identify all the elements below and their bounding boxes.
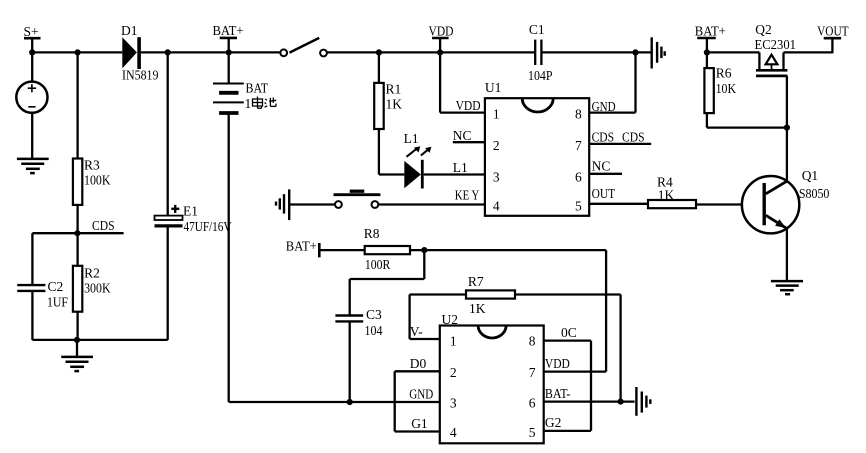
wire R7 right to BAT- net [515, 295, 621, 402]
svg-text:3: 3 [493, 170, 500, 185]
ground (right of C1) [652, 37, 665, 68]
wire Q1 emitter down [786, 229, 788, 281]
svg-text:Q1: Q1 [802, 168, 819, 183]
svg-text:1: 1 [450, 334, 457, 349]
power source [16, 52, 47, 158]
svg-text:GND: GND [409, 387, 433, 402]
wire BAT+ to R8 [319, 249, 364, 251]
svg-text:7: 7 [529, 365, 536, 380]
svg-text:BAT+: BAT+ [286, 239, 317, 254]
svg-text:7: 7 [575, 138, 582, 153]
junction E1 branch [165, 49, 171, 55]
svg-text:R2: R2 [84, 266, 100, 281]
svg-text:VDD: VDD [456, 98, 481, 113]
svg-text:8: 8 [575, 107, 582, 122]
battery BAT 1 [213, 52, 269, 113]
wire R7 left to U2 pin1 [410, 295, 466, 340]
junction CDS node [74, 230, 80, 236]
U1 pin2 label NC with stub [453, 128, 485, 143]
resistor R2 [73, 266, 111, 312]
wire R3 to CDS node [76, 205, 78, 233]
svg-text:1K: 1K [386, 97, 403, 112]
LED L1 [404, 131, 432, 189]
ground (below R2) [61, 340, 93, 371]
wire U2 pin8 to pin5 loop [544, 341, 591, 431]
svg-text:R6: R6 [716, 66, 732, 81]
svg-text:2: 2 [493, 138, 500, 153]
svg-text:4: 4 [493, 198, 500, 213]
svg-text:2: 2 [450, 365, 457, 380]
wire battery to bottom rail [228, 113, 230, 402]
resistor R8 [364, 226, 410, 272]
svg-text:R8: R8 [364, 226, 380, 241]
svg-text:VDD: VDD [545, 356, 570, 371]
svg-text:0C: 0C [561, 325, 577, 340]
node BAT+ terminal (top) [213, 23, 244, 52]
wire R2 to bottom node [76, 312, 78, 340]
svg-text:300K: 300K [84, 281, 111, 296]
U1 pin6 label NC with stub [589, 158, 622, 173]
svg-text:100R: 100R [365, 257, 391, 272]
wire BAT+ to Q2 source [707, 51, 760, 53]
junction battery branch [226, 49, 232, 55]
svg-text:10K: 10K [716, 81, 737, 96]
svg-text:VOUT: VOUT [817, 23, 849, 38]
op-amp U1 box [485, 80, 589, 216]
node BAT+ terminal (bottom) [286, 239, 320, 258]
wire R8 node down to U2 pin7 [544, 250, 606, 372]
svg-text:D0: D0 [410, 356, 427, 371]
svg-text:5: 5 [575, 198, 582, 213]
capacitor E1 [155, 204, 232, 235]
resistor R4 [648, 174, 696, 208]
transistor Q1 [742, 168, 830, 233]
node BAT+ terminal (right) [695, 24, 726, 53]
junction R1 branch [376, 49, 382, 55]
svg-text:BAT+: BAT+ [213, 23, 244, 38]
svg-text:IN5819: IN5819 [122, 68, 159, 83]
ground (right of U2 pin6) [636, 387, 650, 416]
wire R6 to gate line [707, 113, 787, 128]
node CDS [32, 218, 123, 233]
wire U2 pin6 to ground [544, 400, 635, 402]
ground (below source) [17, 159, 49, 173]
wire CDS node to R2 [76, 233, 78, 266]
svg-text:C3: C3 [366, 307, 382, 322]
svg-text:VDD: VDD [429, 24, 454, 39]
junction BAT+ right [704, 49, 710, 55]
wire R8 to corner right [410, 249, 606, 251]
svg-text:5: 5 [529, 425, 536, 440]
svg-text:KE Y: KE Y [455, 188, 480, 203]
svg-text:1: 1 [493, 107, 500, 122]
wire C3 to bottom rail [349, 321, 351, 402]
wire VDD down to U1 pin1 [440, 52, 485, 112]
svg-text:L1: L1 [404, 131, 419, 146]
junction R3 branch on top rail [75, 49, 81, 55]
ground (left of push button) [276, 189, 289, 220]
svg-text:47UF/16V: 47UF/16V [184, 219, 232, 234]
junction VDD on top rail [437, 49, 443, 55]
svg-text:S8050: S8050 [799, 186, 830, 201]
wire C2 to bottom node [31, 291, 33, 340]
svg-text:BAT: BAT [246, 81, 269, 96]
svg-text:1UF: 1UF [47, 295, 68, 310]
value label 1电池 [245, 96, 277, 111]
svg-text:GND: GND [592, 99, 616, 114]
junction at S+ on top rail [29, 49, 35, 55]
U1 pin7 label CDS with stub [589, 129, 651, 144]
svg-text:CDS: CDS [592, 129, 615, 144]
junction bottom node [74, 337, 80, 343]
wire bottom node rail [32, 339, 167, 341]
svg-text:NC: NC [453, 128, 472, 143]
svg-text:6: 6 [575, 170, 582, 185]
svg-text:G1: G1 [411, 416, 428, 431]
svg-text:S+: S+ [24, 24, 39, 39]
svg-text:R3: R3 [84, 158, 100, 173]
wire top rail switch to C1 [327, 51, 535, 53]
svg-text:V-: V- [410, 324, 424, 339]
svg-text:6: 6 [529, 396, 536, 411]
svg-text:U1: U1 [485, 80, 502, 95]
junction GND branch [632, 49, 638, 55]
wire top rail D1 to switch [141, 51, 281, 53]
svg-text:1K: 1K [469, 301, 486, 316]
push button KEY [334, 191, 381, 208]
wire R3 branch down [76, 52, 78, 158]
svg-text:104: 104 [365, 323, 383, 338]
svg-text:4: 4 [450, 425, 457, 440]
wire D0/G1 loop [395, 371, 440, 431]
svg-text:BAT-: BAT- [545, 386, 571, 401]
resistor R7 [466, 274, 515, 316]
svg-text:Q2: Q2 [755, 22, 772, 37]
svg-text:8: 8 [529, 334, 536, 349]
resistor R1 [374, 82, 402, 130]
wire Q2 drain to VOUT [784, 51, 834, 53]
svg-text:D1: D1 [121, 23, 138, 38]
resistor R3 [73, 158, 111, 205]
wire top rail S+ to D1 [32, 51, 122, 53]
capacitor C2 [17, 279, 68, 310]
svg-text:R7: R7 [468, 274, 484, 289]
node VDD terminal [429, 24, 454, 53]
svg-text:EC2301: EC2301 [755, 37, 797, 52]
svg-text:G2: G2 [545, 415, 562, 430]
wire E1 to bottom node rail [167, 228, 169, 340]
junction R8 output node [421, 247, 427, 253]
svg-text:CDS: CDS [622, 129, 645, 144]
wire Q1 collector up to Q2 gate [786, 76, 788, 181]
capacitor C1 [528, 22, 553, 83]
svg-text:104P: 104P [528, 68, 553, 83]
op-amp U2 box [440, 312, 544, 443]
capacitor C3 [335, 307, 382, 338]
wire top rail C1 to ground [541, 51, 651, 53]
wire C3 branch [350, 250, 425, 315]
svg-text:C1: C1 [529, 22, 545, 37]
svg-text:U2: U2 [442, 312, 459, 327]
junction C3 bottom [347, 399, 353, 405]
wire C2 branch down [31, 233, 33, 285]
diode D1 [121, 23, 159, 83]
node S+ terminal [24, 24, 41, 52]
wire LED to U1 pin3 [424, 173, 485, 175]
wire ground to push button [289, 203, 335, 205]
ground (below Q1) [771, 281, 803, 294]
svg-text:E1: E1 [183, 204, 198, 219]
wire E1 branch down [167, 52, 169, 215]
svg-text:3: 3 [450, 396, 457, 411]
wire R1 branch down [378, 52, 380, 83]
junction R6 to gate line [784, 125, 790, 131]
svg-text:L1: L1 [453, 160, 468, 175]
svg-text:100K: 100K [84, 173, 111, 188]
svg-text:OUT: OUT [592, 186, 616, 201]
svg-text:CDS: CDS [92, 218, 115, 233]
junction R7 to BAT- wire [618, 399, 624, 405]
wire GND branch to U1 pin8 [589, 52, 635, 112]
transistor Q2 (P-MOSFET) [755, 22, 797, 76]
svg-text:C2: C2 [48, 279, 64, 294]
wire bottom rail battery to U2 pin3 [229, 401, 440, 403]
svg-text:R1: R1 [386, 82, 402, 97]
svg-text:BAT+: BAT+ [695, 24, 726, 39]
wire R1 to LED [379, 129, 404, 175]
wire R4 to Q1 base [696, 203, 742, 205]
node VOUT terminal [817, 23, 849, 52]
svg-text:1: 1 [245, 96, 252, 111]
wire push button to U1 pin4 [378, 203, 485, 205]
wire U1 pin5 to R4 [589, 203, 648, 205]
resistor R6 [704, 52, 736, 113]
switch S1 [280, 38, 327, 56]
svg-text:NC: NC [592, 158, 611, 173]
